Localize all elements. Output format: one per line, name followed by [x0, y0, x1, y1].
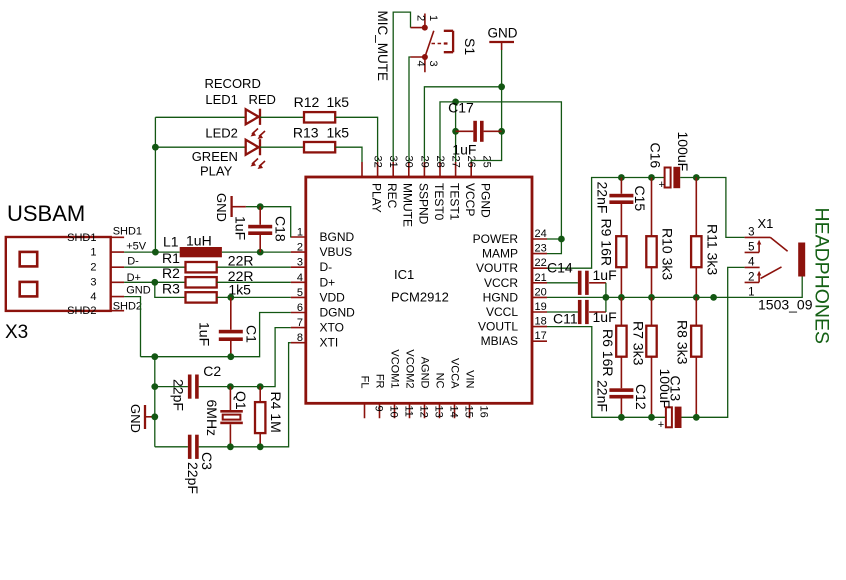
svg-text:C14: C14	[547, 260, 573, 276]
svg-text:C15: C15	[632, 186, 648, 212]
resistor R10 3k3	[646, 178, 675, 298]
svg-text:PLAY: PLAY	[200, 164, 233, 179]
wire VCCP column	[455, 102, 457, 162]
svg-text:1k5: 1k5	[327, 94, 350, 110]
svg-text:TEST0: TEST0	[432, 183, 446, 221]
resistor R13 1k5	[293, 125, 349, 153]
svg-text:HEADPHONES: HEADPHONES	[811, 208, 833, 345]
wire VOUTR pin22 up to filter row	[547, 178, 665, 269]
svg-text:22nF: 22nF	[595, 380, 611, 412]
svg-text:6: 6	[297, 302, 303, 314]
svg-text:12: 12	[418, 406, 430, 418]
svg-text:C16: C16	[648, 143, 664, 169]
svg-text:GND: GND	[128, 404, 143, 433]
svg-text:+: +	[659, 179, 665, 191]
svg-text:1uF: 1uF	[452, 142, 476, 158]
resistor R9 16R	[599, 219, 627, 298]
svg-text:8: 8	[297, 332, 303, 344]
wire TEST1 row to POWER column	[440, 102, 561, 239]
svg-text:R13: R13	[293, 125, 319, 141]
svg-text:SHD1: SHD1	[67, 232, 96, 244]
svg-text:5: 5	[748, 241, 754, 253]
svg-text:C12: C12	[633, 384, 649, 410]
svg-text:S1: S1	[462, 38, 478, 55]
IC1 right pin numbers 24-17	[535, 228, 547, 342]
node R10 top junction	[648, 174, 655, 181]
svg-text:3: 3	[427, 61, 439, 67]
capacitor C15 22nF	[595, 178, 649, 237]
svg-text:R4 1M: R4 1M	[268, 392, 284, 433]
node R11 bottom junction	[693, 294, 700, 301]
svg-text:1k5: 1k5	[327, 125, 350, 141]
IC1 top pin names	[370, 183, 493, 227]
svg-text:1uF: 1uF	[593, 309, 617, 325]
svg-text:LED2: LED2	[205, 126, 238, 141]
wire D- from X3 pin2 to R1	[124, 266, 185, 268]
svg-text:21: 21	[535, 272, 547, 284]
node DGND-GND junction	[151, 353, 158, 360]
svg-text:FL: FL	[359, 376, 371, 389]
node R4 top junction	[257, 383, 264, 390]
svg-text:VCOM2: VCOM2	[404, 349, 416, 388]
svg-text:5: 5	[297, 287, 303, 299]
connector X3 pin names inside	[67, 232, 96, 317]
svg-text:13: 13	[433, 406, 445, 418]
ground GND symbol top	[488, 26, 518, 51]
switch S1	[411, 14, 479, 73]
svg-text:SSPND: SSPND	[416, 183, 430, 225]
svg-text:GND: GND	[214, 193, 229, 222]
svg-text:22: 22	[535, 257, 547, 269]
svg-text:VDD: VDD	[320, 290, 346, 304]
svg-text:R8 3k3: R8 3k3	[675, 320, 691, 365]
svg-text:3: 3	[748, 226, 754, 238]
resistor R2 22R	[162, 265, 253, 287]
svg-text:R10 3k3: R10 3k3	[660, 228, 676, 280]
svg-text:9: 9	[373, 406, 385, 412]
wire LED1 anode	[155, 116, 245, 118]
svg-text:16: 16	[478, 406, 490, 418]
svg-text:+: +	[658, 419, 664, 431]
svg-text:X3: X3	[5, 322, 28, 343]
capacitor C16 100uF polarized	[648, 132, 692, 192]
node GND symbol junction	[151, 413, 158, 420]
IC1 left pins 1-8 stubs	[291, 237, 306, 343]
crystal Q1 6MHz	[204, 387, 249, 447]
node C17 right junction	[498, 128, 505, 135]
wire LED1 to R12	[260, 116, 304, 118]
svg-text:VBUS: VBUS	[320, 245, 353, 259]
wire C13 right to X1 pin4	[682, 267, 745, 417]
wire C17 right to IC pin25 PGND	[471, 131, 501, 162]
capacitor C2 22pF	[171, 363, 222, 411]
wire TEST0 row pin28	[424, 87, 501, 162]
wire LED2 to R13	[260, 146, 304, 148]
svg-text:MAMP: MAMP	[482, 247, 518, 261]
svg-text:2: 2	[90, 262, 96, 274]
svg-text:3: 3	[90, 277, 96, 289]
wire GND from X3 pin4 down	[124, 297, 140, 357]
resistor R6 16R	[600, 297, 627, 388]
node C18 top junction	[257, 203, 264, 210]
svg-text:AGND: AGND	[419, 357, 431, 389]
wire D+ node down to R3	[155, 282, 186, 297]
IC1 top pin numbers 32-25	[372, 156, 493, 168]
node Q1 top junction	[227, 383, 234, 390]
svg-text:4: 4	[90, 291, 96, 303]
svg-text:XTI: XTI	[320, 336, 339, 350]
svg-text:L1: L1	[163, 233, 179, 249]
svg-text:22pF: 22pF	[171, 379, 187, 411]
node C17 left junction	[452, 128, 459, 135]
connector X3 USB body	[5, 201, 111, 343]
svg-text:D-: D-	[127, 256, 139, 268]
svg-text:18: 18	[535, 316, 547, 328]
wire XTO row	[155, 328, 291, 387]
svg-text:R3: R3	[162, 280, 180, 296]
svg-text:GREEN: GREEN	[192, 149, 238, 164]
capacitor C11 1uF	[547, 297, 617, 326]
wire LED supply vertical	[154, 117, 156, 252]
IC1 bottom pins 9-16 stubs	[365, 403, 470, 418]
inductor L1 1uH	[163, 232, 222, 257]
resistor R7 3k3	[631, 297, 657, 417]
svg-text:R7 3k3: R7 3k3	[631, 321, 647, 366]
svg-text:LED1: LED1	[205, 92, 238, 107]
svg-text:7: 7	[297, 317, 303, 329]
svg-text:PCM2912: PCM2912	[391, 290, 449, 305]
wire R2 to IC pin4	[217, 281, 291, 283]
wire HGND rail pin20 to X1 pin1	[547, 277, 802, 298]
svg-text:1uH: 1uH	[186, 232, 212, 248]
svg-text:VIN: VIN	[464, 370, 476, 388]
svg-text:4: 4	[748, 256, 755, 268]
svg-text:PGND: PGND	[479, 183, 493, 218]
svg-text:10: 10	[388, 406, 400, 418]
svg-text:GND: GND	[126, 284, 151, 296]
ground GND symbol at C18	[214, 193, 246, 222]
svg-text:4: 4	[297, 272, 303, 284]
svg-text:PLAY: PLAY	[370, 183, 384, 213]
node D+ junction	[151, 279, 158, 286]
svg-text:RED: RED	[249, 92, 276, 107]
resistor R8 3k3	[675, 297, 702, 417]
svg-text:23: 23	[535, 243, 547, 255]
wire MAMP pin23 to POWER node	[547, 239, 561, 254]
svg-text:1: 1	[427, 15, 439, 21]
ground GND symbol left	[128, 404, 155, 433]
svg-text:6MHz: 6MHz	[204, 400, 220, 437]
svg-text:100uF: 100uF	[675, 132, 691, 172]
svg-text:1uF: 1uF	[197, 322, 213, 346]
svg-text:R12: R12	[294, 94, 320, 110]
IC1 bottom pin numbers 9-16	[373, 406, 490, 418]
wire R12 to IC pin31 REC	[335, 117, 377, 162]
node R9 bottom junction	[618, 294, 625, 301]
svg-text:11: 11	[403, 406, 415, 417]
wire XTI row	[155, 343, 291, 447]
svg-text:1503_09: 1503_09	[758, 297, 813, 313]
svg-text:22R: 22R	[228, 252, 254, 268]
svg-text:POWER: POWER	[473, 232, 519, 246]
node C15 top junction	[618, 174, 625, 181]
capacitor C18 1uF	[233, 207, 289, 252]
wire L1 to IC pin2 VBUS	[222, 251, 291, 253]
wire R13 to IC pin32 PLAY	[335, 147, 362, 162]
svg-text:DGND: DGND	[320, 306, 356, 320]
node +5V junction	[152, 249, 159, 256]
svg-text:4: 4	[415, 61, 427, 67]
node R4 bottom junction	[257, 443, 264, 450]
node C14/C11 junction	[603, 294, 610, 301]
svg-text:22pF: 22pF	[185, 462, 201, 494]
resistor R12 1k5	[294, 94, 350, 122]
svg-text:SHD2: SHD2	[67, 305, 96, 317]
capacitor C14 1uF	[547, 260, 617, 298]
svg-text:1uF: 1uF	[233, 216, 249, 240]
node GND TEST0 junction	[498, 83, 505, 90]
wire +5V from X3 pin1 to L1	[124, 251, 180, 253]
svg-text:+5V: +5V	[126, 240, 147, 252]
svg-text:BGND: BGND	[320, 230, 355, 244]
svg-text:R11 3k3: R11 3k3	[705, 224, 721, 275]
connector X3 pin stubs	[111, 237, 124, 310]
svg-text:1: 1	[748, 286, 754, 298]
svg-text:1uF: 1uF	[593, 267, 617, 283]
op-amp IC1 PCM2912 body	[306, 177, 532, 403]
IC1 left pin names	[320, 230, 356, 350]
svg-text:C11: C11	[553, 310, 578, 326]
svg-text:2: 2	[297, 242, 303, 254]
IC1 top pins 32-25 stubs	[362, 162, 471, 177]
IC1 right pins 24-17 stubs	[532, 239, 547, 341]
svg-text:R9 16R: R9 16R	[599, 219, 615, 266]
svg-text:22nF: 22nF	[595, 182, 611, 214]
node LED2 junction	[152, 144, 159, 151]
wire C18 top row	[246, 207, 291, 237]
svg-text:VCCP: VCCP	[463, 183, 477, 216]
svg-text:20: 20	[535, 286, 547, 298]
node R7 bottom junction	[648, 414, 655, 421]
svg-text:IC1: IC1	[394, 267, 414, 282]
svg-text:SHD2: SHD2	[113, 300, 142, 312]
svg-text:17: 17	[535, 330, 547, 342]
IC1 bottom pin names	[359, 349, 476, 389]
svg-text:15: 15	[463, 406, 475, 418]
svg-text:USBAM: USBAM	[7, 201, 85, 226]
wire S1 pin4 to IC pin29 SSPND	[409, 57, 411, 162]
wire D+ from X3 pin3 to R2	[124, 281, 185, 283]
capacitor C17 1uF	[448, 99, 502, 157]
svg-text:RECORD: RECORD	[205, 76, 261, 91]
svg-text:NC: NC	[434, 373, 446, 389]
svg-text:2: 2	[415, 15, 427, 21]
wire GND vertical left column	[154, 357, 156, 447]
node VCCP top junction	[452, 99, 459, 106]
svg-text:HGND: HGND	[483, 290, 519, 304]
svg-text:25: 25	[481, 156, 493, 168]
resistor R4 1M	[255, 387, 284, 447]
resistor R11 3k3	[691, 178, 720, 298]
svg-text:19: 19	[535, 301, 547, 313]
node HGND to mic gnd junction	[710, 294, 717, 301]
node R10 bottom junction	[648, 294, 655, 301]
svg-text:D+: D+	[320, 275, 336, 289]
node R8 bottom junction	[693, 414, 700, 421]
wire MIC_MUTE net S1 pin2 to IC pin30 MMUTE	[393, 12, 410, 162]
node XTO left junction	[151, 383, 158, 390]
svg-text:VCOM1: VCOM1	[389, 349, 401, 388]
svg-text:Q1: Q1	[233, 391, 249, 410]
svg-text:VCCA: VCCA	[449, 358, 461, 389]
LED LED1 RED	[205, 76, 276, 139]
wire POWER pin24 to node	[547, 238, 561, 240]
svg-text:SHD1: SHD1	[113, 225, 142, 237]
capacitor C1 1uF	[197, 297, 260, 356]
IC1 left pin numbers 1-8	[297, 227, 303, 345]
wire LED2 anode	[155, 146, 245, 148]
node R11 top junction	[693, 174, 700, 181]
resistor R1 22R	[162, 250, 253, 272]
svg-text:1: 1	[297, 227, 303, 239]
connector X1 headphone jack	[745, 216, 813, 313]
IC1 right pin names	[473, 232, 519, 348]
svg-text:MBIAS: MBIAS	[481, 334, 518, 348]
node Q1 bottom junction	[227, 443, 234, 450]
node C1 bottom junction	[227, 353, 234, 360]
svg-text:R2: R2	[162, 265, 180, 281]
wire R3 to IC pin5 VDD	[217, 296, 291, 298]
svg-text:C18: C18	[273, 216, 289, 242]
capacitor C13 100uF polarized	[657, 369, 684, 431]
svg-text:FR: FR	[374, 374, 386, 389]
LED LED2 GREEN	[192, 126, 265, 179]
svg-text:VCCR: VCCR	[484, 276, 518, 290]
svg-text:100uF: 100uF	[657, 369, 673, 409]
wire C16 right to X1 pin3	[680, 178, 744, 238]
node POWER junction	[558, 236, 565, 243]
node VBUS C18 junction	[257, 249, 264, 256]
svg-text:MMUTE: MMUTE	[401, 183, 415, 227]
node C12 bottom junction	[618, 414, 625, 421]
wire VOUTL pin18 down to lower rail	[547, 327, 666, 418]
svg-text:XTO: XTO	[320, 321, 344, 335]
svg-text:MIC_MUTE: MIC_MUTE	[375, 11, 390, 82]
svg-text:R1: R1	[162, 250, 180, 266]
svg-text:C2: C2	[203, 363, 221, 379]
capacitor C12 22nF	[595, 380, 650, 417]
svg-text:VCCL: VCCL	[486, 305, 518, 319]
svg-text:C17: C17	[448, 99, 474, 115]
svg-text:X1: X1	[758, 216, 774, 231]
svg-text:TEST1: TEST1	[448, 183, 462, 221]
resistor R3 1k5	[162, 280, 251, 302]
svg-text:VOUTR: VOUTR	[476, 261, 518, 275]
svg-text:14: 14	[448, 406, 460, 418]
node VDD C1 junction	[227, 294, 234, 301]
svg-text:1: 1	[90, 247, 96, 259]
svg-text:24: 24	[535, 228, 547, 240]
svg-text:REC: REC	[385, 183, 399, 209]
svg-text:D-: D-	[320, 260, 333, 274]
svg-text:GND: GND	[488, 26, 518, 41]
wire R1 to IC pin3	[217, 266, 291, 268]
svg-text:R6 16R: R6 16R	[600, 329, 616, 376]
wire DGND row	[141, 313, 291, 357]
svg-text:VOUTL: VOUTL	[478, 320, 518, 334]
svg-text:3: 3	[297, 257, 303, 269]
svg-text:2: 2	[748, 271, 754, 283]
capacitor C3 22pF	[185, 435, 215, 494]
wire GND down to TEST0 row	[501, 50, 503, 87]
wire GND down to C17 right	[501, 87, 503, 132]
svg-text:C1: C1	[244, 325, 260, 343]
